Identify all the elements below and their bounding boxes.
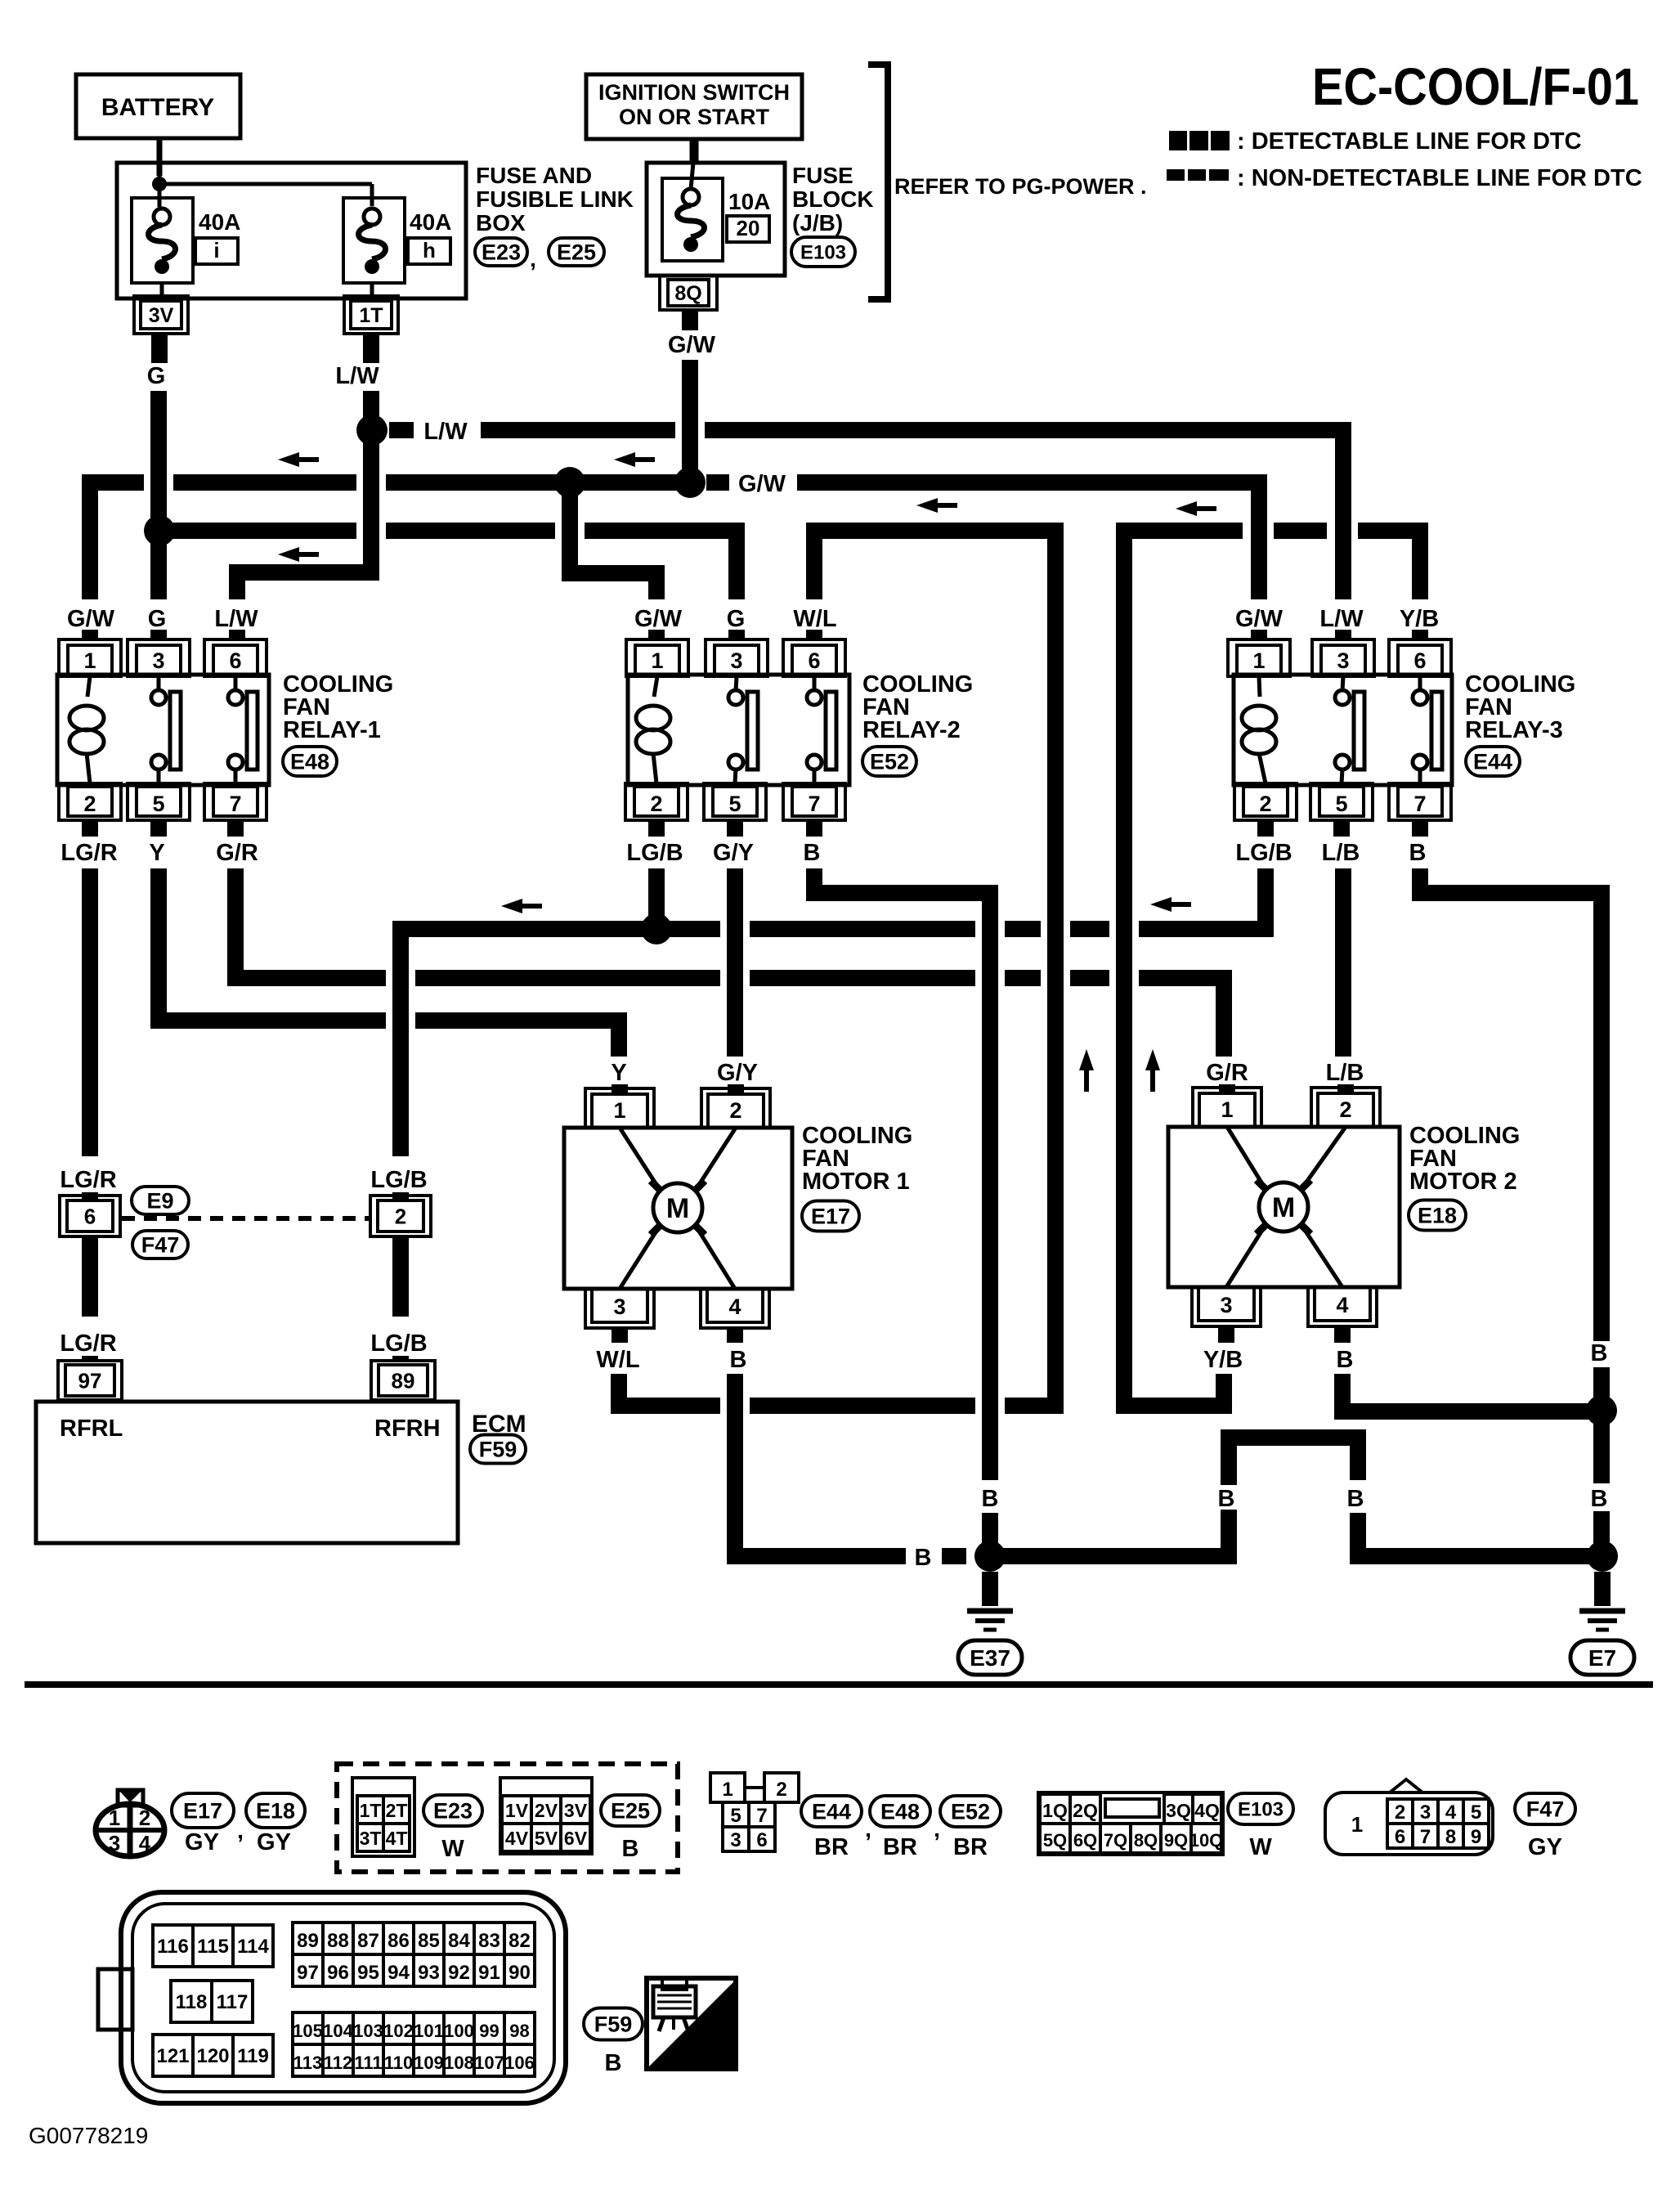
dashed link E9-F47 — [122, 1216, 369, 1221]
node G/W junction dot B — [674, 467, 706, 498]
svg-text:LG/B: LG/B — [370, 1167, 427, 1193]
connector oval E103 — [791, 237, 855, 267]
svg-text:6: 6 — [84, 1204, 96, 1228]
svg-text:91: 91 — [478, 1962, 500, 1984]
svg-text:G/W: G/W — [738, 471, 786, 497]
flow arrow on Y/B segment — [1176, 501, 1197, 516]
svg-text:E52: E52 — [951, 1800, 990, 1824]
motor E17 symbol — [620, 1128, 660, 1190]
svg-text:6: 6 — [229, 648, 241, 673]
wire ground bus E37 to hop — [990, 1480, 1229, 1556]
wire LG/R vertical — [82, 868, 98, 1156]
relay E52 contact — [736, 676, 737, 691]
connector view round E17/E18 — [96, 1804, 164, 1856]
svg-text:89: 89 — [297, 1930, 319, 1952]
svg-text:B: B — [1409, 840, 1427, 866]
svg-text:5: 5 — [730, 1805, 741, 1827]
svg-text:3V: 3V — [149, 304, 174, 327]
svg-text:Y/B: Y/B — [1400, 606, 1439, 632]
svg-text:,: , — [237, 1818, 244, 1843]
wire battery to fuse box — [157, 138, 163, 176]
node battery feed junction — [158, 176, 162, 207]
svg-text:G/W: G/W — [668, 332, 716, 358]
wire LG/B stub to pin 89 — [392, 1356, 409, 1362]
svg-text:B: B — [1218, 1486, 1235, 1512]
svg-text:2: 2 — [83, 792, 96, 816]
svg-text:L/W: L/W — [1319, 606, 1364, 632]
svg-text:RFRH: RFRH — [374, 1416, 441, 1442]
relay E48 pin 3 — [128, 639, 190, 676]
svg-text:8Q: 8Q — [674, 282, 701, 305]
svg-text:B: B — [730, 1347, 747, 1373]
connector oval E18 — [246, 1793, 305, 1828]
wire ignition to fuse block — [690, 139, 699, 163]
bracket for fuse section — [868, 65, 888, 299]
svg-text:3: 3 — [1220, 1293, 1232, 1317]
svg-text:107: 107 — [474, 2053, 504, 2073]
connector oval E17 — [172, 1793, 234, 1828]
wire stub relay-3 pin 2 — [1257, 820, 1274, 837]
fuse 10A — [662, 178, 723, 261]
svg-text:106: 106 — [504, 2053, 535, 2073]
svg-text:3V: 3V — [564, 1800, 588, 1821]
connector 1T — [344, 296, 398, 334]
connector oval E9 — [132, 1187, 189, 1214]
svg-text:6: 6 — [756, 1829, 767, 1851]
svg-text:F59: F59 — [479, 1438, 517, 1462]
H.S. connector icon — [653, 1986, 696, 2017]
fuse i 40A — [132, 198, 193, 283]
wire G/W bus segment to relay-3 — [797, 482, 1259, 599]
svg-text:115: 115 — [197, 1936, 229, 1958]
ECM connector outline — [121, 1892, 566, 2103]
svg-text:LG/B: LG/B — [626, 840, 683, 866]
svg-text:110: 110 — [384, 2053, 414, 2073]
svg-text:F47: F47 — [141, 1233, 180, 1258]
svg-text:2: 2 — [1259, 792, 1271, 816]
svg-text:4: 4 — [139, 1831, 151, 1855]
svg-text:Y/B: Y/B — [1203, 1347, 1243, 1373]
svg-text:40A: 40A — [199, 209, 240, 235]
wire L/W stub below 1T — [363, 334, 379, 363]
wire stub relay-1 pin 1 — [82, 630, 98, 639]
svg-text:7: 7 — [808, 792, 820, 816]
wire G/R segment to motor2 pin 1 — [1139, 978, 1224, 1057]
svg-text:3: 3 — [1337, 648, 1349, 673]
ECM box — [36, 1402, 458, 1543]
svg-text:GY: GY — [257, 1829, 291, 1855]
svg-text:IGNITION SWITCH: IGNITION SWITCH — [598, 80, 790, 105]
svg-text:6Q: 6Q — [1073, 1830, 1097, 1851]
svg-text:93: 93 — [418, 1962, 440, 1984]
wire LG/B stub to connector 2 — [392, 1192, 409, 1200]
wire stub relay-1 pin 6 — [229, 630, 245, 639]
node G/W junction dot A — [554, 467, 585, 498]
svg-text:G00778219: G00778219 — [29, 2123, 148, 2148]
connector view E103 (1Q-10Q) — [1038, 1792, 1223, 1855]
flow arrow on W/L segment — [916, 498, 938, 513]
wire stub relay-1 pin 5 — [150, 820, 167, 837]
wire to fuse h — [159, 182, 372, 186]
connector view E23 (1T-4T) — [352, 1778, 414, 1856]
ECM cells 118-117 — [171, 1981, 212, 2022]
svg-text:E44: E44 — [1473, 750, 1512, 774]
svg-text:114: 114 — [237, 1936, 269, 1958]
relay E52 coil — [654, 676, 657, 697]
svg-text:B: B — [1337, 1347, 1354, 1373]
svg-text:h: h — [423, 238, 436, 262]
wire LG/B bus segment to connector E9 — [401, 929, 720, 1156]
connector oval E48 — [283, 747, 337, 776]
svg-text:5: 5 — [1471, 1801, 1481, 1824]
motor box E18 — [1168, 1127, 1400, 1287]
svg-text:BR: BR — [953, 1834, 988, 1860]
svg-text:118: 118 — [176, 1991, 208, 2013]
connector 6 (E9/F47) — [60, 1196, 120, 1236]
svg-text:E23: E23 — [433, 1799, 473, 1824]
relay E52 pin 6 — [783, 639, 845, 676]
svg-text:1: 1 — [1252, 648, 1265, 673]
svg-text:5: 5 — [728, 792, 741, 816]
svg-text:5V: 5V — [535, 1828, 558, 1849]
connector oval E52 bottom — [940, 1796, 1001, 1827]
svg-text:LG/R: LG/R — [60, 1167, 116, 1193]
svg-text:5: 5 — [1335, 792, 1347, 816]
relay E48 contact — [234, 676, 238, 691]
svg-text:3: 3 — [730, 1829, 741, 1851]
wire stub relay-2 pin 5 — [727, 820, 743, 837]
flow arrow on L/W staircase — [278, 547, 299, 562]
connector oval E7 — [1570, 1640, 1634, 1675]
relay E44 pin 3 — [1312, 639, 1374, 676]
svg-text:REFER TO PG-POWER .: REFER TO PG-POWER . — [894, 174, 1147, 199]
relay E48 coil — [87, 676, 90, 697]
wire LG/B relay-2 pin2 drop — [648, 868, 665, 929]
relay E44 pin 6 — [1389, 639, 1451, 676]
svg-text:E103: E103 — [800, 242, 846, 264]
svg-text:G: G — [727, 606, 746, 632]
svg-text:B: B — [605, 2050, 622, 2076]
svg-text:B: B — [915, 1545, 932, 1571]
svg-text:B: B — [622, 1836, 639, 1862]
wire G/W bus segment — [386, 474, 680, 491]
wire L/W vertical staircase to relay-1 pin 6 — [237, 391, 371, 599]
svg-text:G: G — [147, 363, 166, 389]
wire B resume — [1593, 1367, 1610, 1556]
legend detectable line sample — [1169, 131, 1230, 150]
ECM cells 105-98 / 113-106 — [293, 2012, 323, 2044]
svg-text:E37: E37 — [970, 1645, 1010, 1671]
ECM cells 116-114 — [153, 1925, 193, 1967]
svg-text:9Q: 9Q — [1164, 1830, 1188, 1851]
wire stub relay-2 pin 2 — [648, 820, 665, 837]
svg-text:BLOCK: BLOCK — [792, 186, 874, 212]
node G junction on bus3 — [144, 515, 175, 546]
svg-text:E44: E44 — [812, 1800, 851, 1824]
svg-text:B: B — [1591, 1486, 1608, 1512]
svg-text:7: 7 — [1420, 1826, 1431, 1848]
svg-text:1: 1 — [651, 648, 663, 673]
ground E7 — [1594, 1572, 1611, 1606]
relay E44 pin 1 — [1228, 639, 1290, 676]
svg-text:88: 88 — [327, 1930, 349, 1952]
svg-text:GY: GY — [1528, 1834, 1562, 1860]
svg-text:: DETECTABLE LINE FOR DTC: : DETECTABLE LINE FOR DTC — [1237, 128, 1582, 155]
svg-text:3Q: 3Q — [1166, 1800, 1191, 1821]
svg-text:3: 3 — [613, 1294, 625, 1319]
ECM pin 89 — [371, 1361, 435, 1400]
wire G/R segment — [1070, 970, 1109, 986]
svg-text:i: i — [213, 238, 219, 262]
flow arrow on G/W bus mid — [614, 452, 635, 467]
svg-text:8Q: 8Q — [1134, 1830, 1158, 1851]
relay E44 pin 5 — [1310, 783, 1373, 820]
svg-text:2: 2 — [1395, 1801, 1405, 1824]
H.S. stamp — [647, 1978, 736, 2069]
wire G/R segment — [415, 970, 720, 986]
svg-text:108: 108 — [444, 2053, 474, 2073]
connector view relay type (1,2/5,7/3,6) — [710, 1773, 745, 1802]
ECM pin 97 — [58, 1361, 122, 1400]
wire Y/B long drop — [1124, 531, 1243, 1406]
svg-text:E48: E48 — [880, 1800, 920, 1824]
relay E44 contact — [1342, 676, 1343, 691]
svg-text:87: 87 — [357, 1930, 379, 1952]
wire LG/B connector2 to ECM — [392, 1236, 409, 1317]
svg-text:6: 6 — [1395, 1826, 1405, 1848]
svg-text:E7: E7 — [1588, 1645, 1616, 1671]
relay E52 pin 2 — [625, 783, 688, 820]
svg-text:121: 121 — [156, 2045, 189, 2067]
relay box E48 — [57, 675, 269, 785]
relay box E44 — [1234, 675, 1452, 785]
svg-text:2T: 2T — [386, 1800, 408, 1821]
svg-text:W: W — [441, 1836, 464, 1862]
ECM connector side tab — [98, 1969, 132, 2030]
svg-text:116: 116 — [157, 1936, 189, 1958]
svg-text:3: 3 — [1420, 1801, 1431, 1824]
svg-text:7Q: 7Q — [1104, 1830, 1127, 1851]
wire stub motor2 pin 4 — [1334, 1328, 1351, 1343]
separator line — [25, 1681, 1653, 1688]
svg-text:2: 2 — [1339, 1097, 1351, 1122]
relay box E52 — [628, 675, 849, 785]
svg-text:B: B — [982, 1486, 999, 1512]
relay E52 pin 5 — [704, 783, 766, 820]
wire B route right — [1420, 868, 1602, 1341]
connector oval E25 — [549, 238, 604, 266]
svg-text:H.S.: H.S. — [680, 2036, 731, 2066]
relay E44 pin 2 — [1234, 783, 1297, 820]
wire stub relay-3 pin 5 — [1333, 820, 1350, 837]
wire G/W bus left corner to relay-1 pin 1 — [90, 482, 144, 599]
fuse id box h — [408, 238, 450, 264]
svg-text:103: 103 — [353, 2021, 383, 2041]
wire B motor2 route to junction — [1342, 1374, 1602, 1411]
svg-text:20: 20 — [737, 216, 760, 240]
svg-text:G/R: G/R — [1206, 1060, 1248, 1086]
connector 2 (E9/F47) — [370, 1196, 431, 1236]
svg-text:10Q: 10Q — [1189, 1830, 1224, 1851]
relay E48 pin 7 — [204, 783, 267, 820]
wire stub motor1 pin 4 — [727, 1328, 743, 1343]
svg-text:2: 2 — [650, 792, 662, 816]
svg-text:BOX: BOX — [476, 210, 526, 236]
svg-text:112: 112 — [324, 2053, 353, 2073]
relay E44 coil — [1259, 676, 1260, 697]
svg-text:LG/R: LG/R — [60, 840, 117, 866]
wire W/L segment to motor1 pin 3 — [619, 1374, 720, 1406]
svg-text:94: 94 — [388, 1962, 410, 1984]
svg-text:3: 3 — [152, 648, 164, 673]
flow arrow on LG/B bus right — [1150, 897, 1172, 912]
fuse block box — [647, 163, 785, 276]
wire G/R segment — [1005, 970, 1041, 986]
wire L/W bus segment to relay-3 — [705, 430, 1343, 599]
svg-text:E23: E23 — [482, 240, 521, 265]
connector 3V — [134, 296, 188, 334]
svg-text:BR: BR — [883, 1834, 917, 1860]
wire Y segment to motor1 pin 1 — [415, 1021, 619, 1057]
svg-text:RELAY-3: RELAY-3 — [1465, 717, 1563, 743]
svg-text:96: 96 — [327, 1962, 349, 1984]
wire stub motor1 pin 1 — [612, 1084, 628, 1094]
wire stub motor1 pin 2 — [728, 1084, 744, 1094]
svg-text:RELAY-1: RELAY-1 — [283, 717, 381, 743]
svg-text:109: 109 — [414, 2053, 444, 2073]
connector oval E25 bottom — [601, 1795, 660, 1826]
svg-text:97: 97 — [297, 1962, 319, 1984]
svg-text:MOTOR 1: MOTOR 1 — [802, 1169, 910, 1195]
wire stub motor2 pin 2 — [1337, 1084, 1354, 1094]
connector oval E52 — [862, 747, 916, 776]
motor E18 pin 1 — [1193, 1088, 1261, 1127]
svg-text:E17: E17 — [811, 1205, 850, 1229]
fuse and fusible link box — [117, 163, 466, 298]
wire stub relay-2 pin 6 — [806, 630, 822, 639]
svg-text:5Q: 5Q — [1043, 1830, 1067, 1851]
legend non-detectable line sample — [1167, 169, 1229, 181]
wire stub relay-1 pin 3 — [150, 630, 167, 639]
connector oval E44 bottom — [801, 1796, 862, 1827]
connector oval F47 bottom — [1515, 1793, 1575, 1824]
svg-text:M: M — [666, 1193, 689, 1224]
svg-text:G/Y: G/Y — [713, 840, 754, 866]
svg-text:120: 120 — [196, 2045, 229, 2067]
svg-text:2Q: 2Q — [1073, 1800, 1098, 1821]
relay E48 pin 2 — [59, 783, 121, 820]
svg-text:104: 104 — [323, 2021, 353, 2041]
svg-text:F47: F47 — [1526, 1797, 1565, 1822]
svg-text:G/R: G/R — [216, 840, 258, 866]
connector oval E23 bottom — [423, 1795, 482, 1826]
relay E44 contact — [1418, 676, 1422, 691]
svg-text:85: 85 — [418, 1930, 440, 1952]
svg-text:2V: 2V — [535, 1800, 558, 1821]
svg-text:: NON-DETECTABLE LINE FOR DTC: : NON-DETECTABLE LINE FOR DTC — [1237, 165, 1642, 191]
wire W/L segment — [750, 1398, 975, 1414]
node B junction motor2 — [1586, 1395, 1617, 1426]
node L/W junction — [356, 415, 388, 446]
svg-text:E52: E52 — [870, 750, 909, 774]
wire G bus segment — [159, 523, 356, 539]
wire stub relay-2 pin 1 — [648, 630, 665, 639]
connector oval E103 bottom — [1228, 1793, 1293, 1824]
wire Y/B segment — [1274, 523, 1327, 539]
svg-text:L/W: L/W — [214, 606, 258, 632]
svg-text:1: 1 — [109, 1806, 120, 1830]
wire W/L staircase — [814, 531, 1055, 1406]
wire stub relay-2 pin 3 — [728, 630, 745, 639]
svg-text:84: 84 — [448, 1930, 470, 1952]
svg-text:Y: Y — [611, 1060, 626, 1086]
svg-text:4V: 4V — [505, 1828, 529, 1849]
relay E52 pin 1 — [626, 639, 688, 676]
svg-text:4: 4 — [1336, 1293, 1348, 1317]
svg-text:117: 117 — [217, 1991, 249, 2013]
svg-text:1T: 1T — [359, 304, 383, 327]
svg-text:,: , — [530, 246, 536, 271]
svg-text:1V: 1V — [505, 1800, 529, 1821]
wire G/W vertical to bus — [682, 360, 698, 482]
svg-text:4Q: 4Q — [1194, 1800, 1220, 1821]
wire LG/B bus segment — [1070, 921, 1109, 937]
svg-text:90: 90 — [508, 1962, 531, 1984]
wire LG/R stub to pin 97 — [82, 1356, 98, 1362]
svg-text:BATTERY: BATTERY — [101, 94, 214, 121]
svg-text:FUSIBLE LINK: FUSIBLE LINK — [476, 186, 634, 212]
svg-text:2: 2 — [139, 1806, 150, 1830]
svg-text:W/L: W/L — [596, 1347, 639, 1373]
svg-text:1: 1 — [722, 1779, 732, 1801]
connector oval F47 — [132, 1231, 188, 1259]
svg-text:7: 7 — [1413, 792, 1426, 816]
svg-text:3T: 3T — [360, 1828, 382, 1849]
motor E18 symbol — [1227, 1127, 1266, 1189]
wire G/R segment — [750, 970, 975, 986]
dashed group box E23/E25 — [337, 1764, 678, 1872]
svg-text:LG/B: LG/B — [370, 1330, 427, 1357]
relay E48 pin 6 — [204, 639, 267, 676]
wire hop left leg — [1229, 1438, 1358, 1513]
wire LG/R stub to connector 6 — [82, 1192, 98, 1200]
svg-text:,: , — [934, 1816, 940, 1842]
wire G/W bus segment — [173, 474, 356, 491]
connector view F47 (1-9) — [1325, 1792, 1493, 1855]
relay E48 pin 5 — [128, 783, 190, 820]
wire stub motor2 pin 3 — [1218, 1328, 1234, 1343]
svg-text:B: B — [1347, 1486, 1364, 1512]
svg-text:113: 113 — [293, 2053, 323, 2073]
ECM cells 121-119 — [153, 2035, 193, 2076]
wire L/B vertical — [1335, 868, 1351, 1057]
svg-text:4: 4 — [728, 1294, 741, 1319]
wire L/W bus segment — [481, 422, 675, 438]
node LG/B junction relay-2 pin 2 — [641, 913, 672, 944]
wire G/W branch to relay-2 pin 1 — [570, 482, 656, 599]
svg-text:F59: F59 — [594, 2012, 633, 2037]
svg-text:E9: E9 — [146, 1189, 173, 1214]
wire stub motor1 pin 3 — [612, 1328, 628, 1343]
svg-text:1: 1 — [1221, 1097, 1233, 1122]
node E7 junction — [1587, 1541, 1618, 1572]
wire stub relay-3 pin 1 — [1251, 630, 1267, 639]
wire G/R route — [235, 868, 386, 978]
svg-text:RELAY-2: RELAY-2 — [862, 717, 961, 743]
svg-text:G/W: G/W — [67, 606, 115, 632]
connector view E25 (1V-6V) — [500, 1778, 592, 1854]
flow arrow on LG/B bus — [501, 899, 522, 913]
